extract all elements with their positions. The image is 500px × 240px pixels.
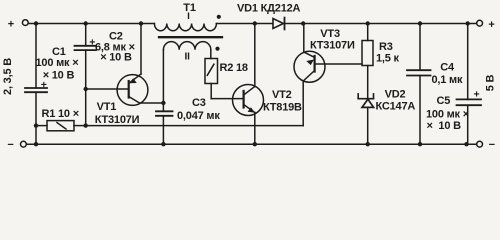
svg-text:КС147А: КС147А	[376, 100, 416, 112]
svg-text:1,5 к: 1,5 к	[376, 53, 400, 65]
svg-text:II: II	[185, 51, 191, 62]
svg-text:VD1 КД212А: VD1 КД212А	[237, 3, 301, 15]
svg-text:0,047 мк: 0,047 мк	[177, 110, 220, 122]
svg-text:100 мк ×: 100 мк ×	[426, 109, 469, 121]
svg-text:+: +	[488, 19, 494, 31]
svg-text:T1: T1	[183, 2, 196, 14]
svg-text:R1 10 ×: R1 10 ×	[42, 108, 79, 120]
svg-text:VT3: VT3	[320, 28, 340, 40]
svg-text:× 10 В: × 10 В	[100, 52, 132, 64]
svg-text:C5: C5	[437, 95, 451, 107]
svg-text:КТ3107И: КТ3107И	[310, 40, 355, 52]
svg-text:КТ819В: КТ819В	[263, 102, 302, 114]
svg-text:× 10 В: × 10 В	[427, 120, 462, 132]
svg-text:R2 18: R2 18	[220, 62, 248, 74]
svg-text:+: +	[474, 89, 480, 101]
svg-text:VT2: VT2	[272, 89, 292, 101]
svg-text:× 10 В: × 10 В	[43, 70, 75, 82]
svg-text:R3: R3	[379, 41, 393, 53]
svg-text:2, 3,5 В: 2, 3,5 В	[2, 58, 14, 95]
svg-text:100 мк ×: 100 мк ×	[36, 57, 79, 69]
svg-text:КТ3107И: КТ3107И	[95, 114, 140, 126]
svg-text:+: +	[41, 79, 47, 91]
svg-text:C3: C3	[192, 97, 206, 109]
svg-text:+: +	[89, 37, 95, 49]
svg-text:−: −	[489, 139, 495, 151]
svg-text:0,1 мк: 0,1 мк	[432, 74, 463, 86]
svg-text:C4: C4	[440, 62, 455, 74]
svg-text:+: +	[8, 19, 14, 31]
svg-text:−: −	[7, 139, 13, 151]
svg-text:5 В: 5 В	[485, 74, 497, 91]
svg-text:VT1: VT1	[97, 101, 117, 113]
svg-text:VD2: VD2	[385, 89, 406, 101]
